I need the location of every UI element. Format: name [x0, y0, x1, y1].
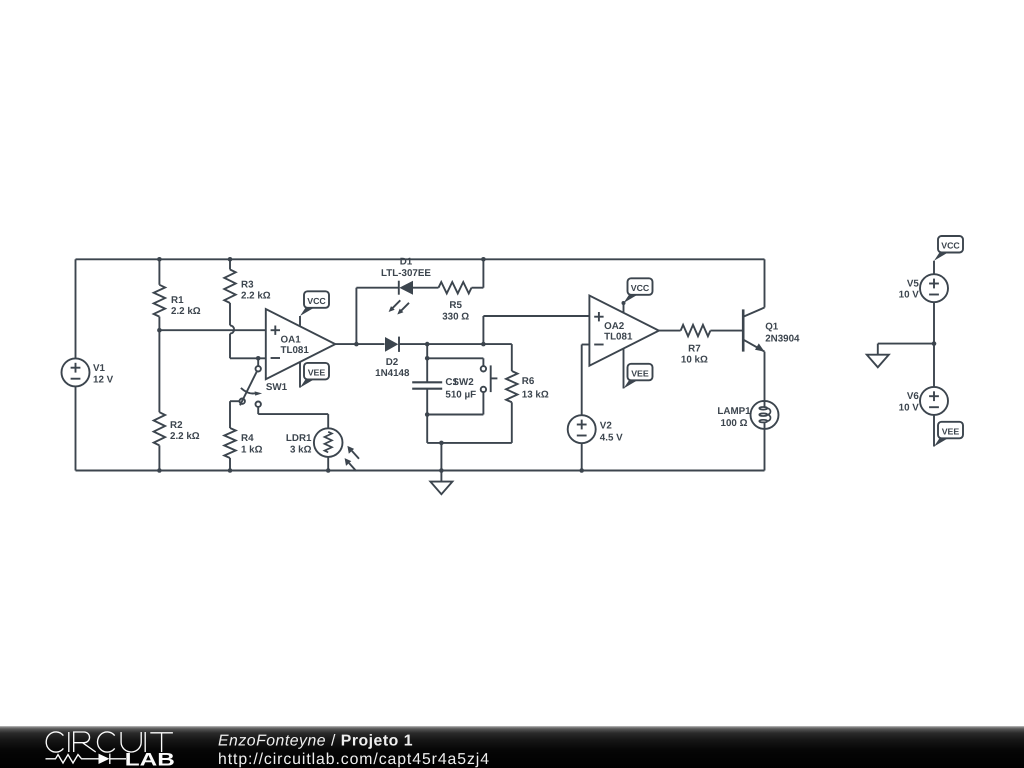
- wire bottom rail: [76, 470, 765, 472]
- ground symbol right: [867, 355, 889, 368]
- voltage source V1: [62, 358, 90, 386]
- switch SW1: [240, 358, 288, 407]
- power flag VCC V5: [934, 236, 963, 261]
- node R1-R2 junction: [157, 328, 162, 333]
- wire OA1 output: [335, 343, 384, 345]
- wire OA2 inverting input: [582, 344, 590, 346]
- wire D2 cathode out: [399, 343, 427, 345]
- node C1 top junction: [425, 342, 430, 347]
- wire C1 node down: [426, 415, 428, 443]
- node C1 bottom junction: [425, 412, 430, 417]
- power flag VCC OA1: [300, 291, 329, 316]
- wire VCC flag stub V5: [933, 261, 935, 275]
- wire V2 bottom lead: [581, 443, 583, 470]
- wire D1 cathode lead: [356, 287, 398, 289]
- wire R1-R2 node to OA1 noninverting input: [159, 329, 265, 331]
- node R2 bottom rail junction: [157, 468, 162, 473]
- wire LAMP1 to bottom rail: [764, 429, 766, 471]
- pushbutton SW2: [453, 365, 498, 392]
- wire OA2 VEE stub: [623, 348, 625, 388]
- wire V6 to VEE flag stub: [933, 415, 935, 447]
- resistor R6: [506, 344, 549, 443]
- node ground tap junction: [439, 441, 444, 446]
- wire D1 anode to R5: [413, 287, 439, 289]
- wire ground tap down to rail: [440, 443, 442, 471]
- wire to OA2 noninverting input: [483, 315, 589, 317]
- wire SW2 bottom to C1 bottom: [427, 414, 483, 416]
- wire R5 up to rail: [482, 259, 484, 287]
- wire down to V2: [581, 345, 583, 416]
- wire down to C1: [426, 344, 428, 358]
- capacitor C1 510 uF: [412, 358, 476, 414]
- wire midpoint to V6: [933, 344, 935, 387]
- resistor R4: [224, 428, 262, 471]
- power flag VEE OA2: [624, 364, 653, 389]
- node LED branch junction: [354, 342, 359, 347]
- wire SW2 bottom lead: [482, 392, 484, 414]
- wire to LDR1: [258, 413, 328, 415]
- node SW1 tap junction: [256, 356, 261, 361]
- power flag VEE V6: [934, 422, 963, 447]
- wire up to OA2 noninverting: [482, 316, 484, 344]
- wire R3 bottom vertical: [229, 334, 231, 359]
- svg-text:http://circuitlab.com/capt45r4: http://circuitlab.com/capt45r4a5zj4: [218, 751, 489, 768]
- wire V1 top lead: [75, 259, 77, 358]
- resistor R5: [439, 282, 484, 322]
- resistor R1: [154, 259, 201, 330]
- node LDR1 bottom rail junction: [326, 468, 331, 473]
- svg-text:EnzoFonteyne / Projeto 1: EnzoFonteyne / Projeto 1: [218, 732, 413, 749]
- node R1 top rail junction: [157, 257, 162, 262]
- wire OA2 output to R7: [659, 330, 681, 332]
- LED D1 LTL-307EE: [381, 257, 431, 315]
- wire hop R3 over noninverting wire: [230, 325, 234, 333]
- power flag VCC OA2: [622, 278, 653, 305]
- wire V5 to midpoint: [933, 302, 935, 343]
- node R5 top rail junction: [481, 257, 486, 262]
- wire up to D1 cathode: [355, 288, 357, 344]
- diode D2 1N4148: [375, 337, 410, 380]
- node R3 top rail junction: [228, 257, 233, 262]
- wire OA1 VCC stub: [299, 316, 301, 326]
- wire Q1 emitter down: [764, 352, 766, 401]
- transistor Q1 2N3904: [743, 308, 800, 352]
- CircuitLab logo: [46, 732, 173, 764]
- voltage source V5: [920, 274, 948, 302]
- power flag VEE OA1: [300, 363, 329, 388]
- wire to SW2 top: [427, 357, 483, 359]
- wire SW1 left throw: [230, 400, 240, 402]
- lamp LAMP1: [717, 401, 778, 429]
- wire LDR1 bottom lead: [327, 457, 329, 471]
- wire to R4: [229, 401, 231, 428]
- resistor R3: [224, 259, 270, 325]
- node R4 bottom rail junction: [228, 468, 233, 473]
- wire D2 node to R6 top: [427, 343, 512, 345]
- node SW2 branch junction: [425, 356, 430, 361]
- wire top VCC rail: [76, 258, 765, 260]
- resistor R2: [154, 330, 200, 470]
- voltage source V2: [568, 415, 596, 443]
- wire LDR1 top lead: [327, 414, 329, 428]
- wire to ground branch: [878, 343, 934, 345]
- wire OA1 VEE stub: [299, 362, 301, 387]
- wire Q1 collector to rail: [764, 259, 766, 307]
- node V5-V6 midpoint junction: [932, 341, 937, 346]
- wire OA2 VCC stub: [623, 303, 625, 312]
- resistor R7: [681, 325, 711, 366]
- wire SW1 right throw down: [257, 407, 259, 414]
- wire ground stem: [877, 344, 879, 355]
- node V2 bottom rail junction: [579, 468, 584, 473]
- photoresistor LDR1: [286, 428, 359, 471]
- wire R7 to Q1 base: [710, 330, 743, 332]
- ground symbol: [430, 471, 452, 495]
- node rail ground junction: [439, 468, 444, 473]
- wire V1 bottom lead: [75, 386, 77, 470]
- wire to OA1 inverting input: [230, 357, 266, 359]
- svg-text:LAB: LAB: [125, 750, 175, 768]
- op-amp OA2 TL081: [589, 296, 659, 366]
- op-amp OA1 TL081: [266, 309, 336, 379]
- voltage source V6: [920, 387, 948, 415]
- wire bottom of C1 block: [427, 442, 512, 444]
- node OA2 input branch junction: [481, 342, 486, 347]
- wire SW2 top lead: [482, 358, 484, 366]
